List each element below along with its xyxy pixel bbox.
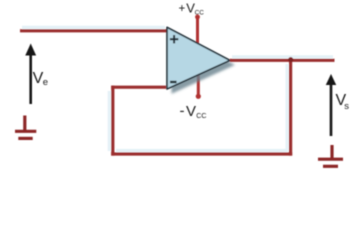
arrow Vs [326,74,336,136]
svg-text:Vs: Vs [336,92,350,112]
ground GND left [15,116,36,139]
wire feedback bottom run [111,152,292,155]
junction node [288,57,293,62]
wire output [230,59,335,62]
ground GND right [318,145,343,166]
wire feedback to inverting input [111,86,166,89]
wire input to non-inverting pin [20,29,167,32]
source arrow Ve [25,44,36,105]
svg-text:-VCC: -VCC [180,103,207,120]
wire feedback vertical from output junction [289,60,292,155]
op-amp inverting input marker - [170,81,177,83]
svg-text:+VCC: +VCC [179,0,205,16]
wire feedback vertical left [111,86,114,156]
op-amp U1 [167,27,235,93]
svg-text:Ve: Ve [33,70,48,88]
-Vcc supply wire [196,73,201,99]
wire halos (jpeg-like light blue fringe) [22,27,333,151]
+Vcc supply wire [195,15,200,44]
op-amp non-inverting input marker + [170,35,178,43]
